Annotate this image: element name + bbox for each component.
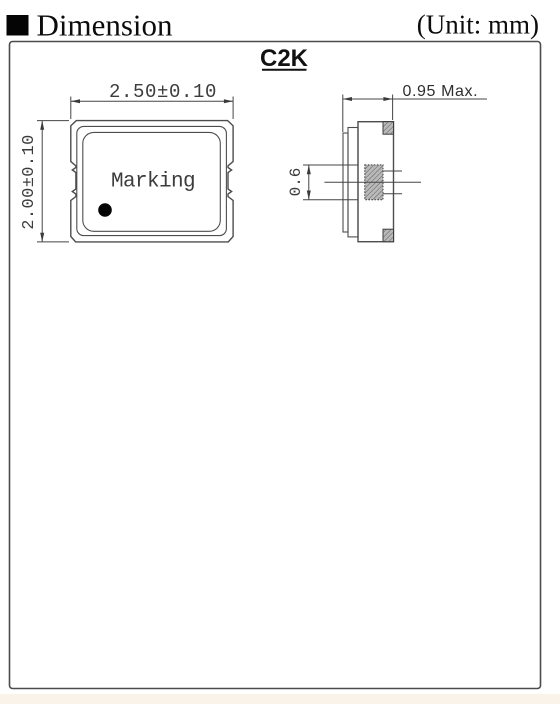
dim 2.00 extension lines (37, 120, 69, 122)
crystal electrode (hatched) (365, 165, 383, 200)
package lid seam (outer rounded) (77, 126, 227, 235)
svg-text:0.95 Max.: 0.95 Max. (403, 83, 479, 100)
svg-text:Marking: Marking (111, 171, 195, 194)
svg-text:Dimension: Dimension (37, 8, 174, 43)
dim 2.50 extension lines (70, 97, 72, 120)
bottom page strip (0, 694, 560, 704)
dim 0.95 line with leader (343, 98, 393, 100)
electrode leader lines (383, 170, 402, 172)
svg-text:2.50±0.10: 2.50±0.10 (109, 81, 217, 103)
side view top-right pad (383, 122, 394, 135)
svg-text:0.6: 0.6 (287, 168, 305, 197)
title bullet square (7, 15, 29, 36)
dim 0.95 extension lines (342, 95, 344, 133)
package top view outline (71, 121, 233, 242)
package lid top (inner rounded) (83, 132, 221, 231)
dim 0.6 extension lines (303, 164, 358, 166)
side view body (358, 122, 394, 242)
svg-text:(Unit: mm): (Unit: mm) (417, 10, 539, 40)
pin 1 index dot (98, 203, 112, 217)
side view lid (348, 128, 358, 237)
dim 2.50 line (71, 100, 233, 102)
svg-text:C2K: C2K (260, 45, 309, 72)
horizontal centerline (324, 181, 421, 183)
svg-text:2.00±0.10: 2.00±0.10 (20, 134, 39, 229)
dim 0.6 line (308, 165, 310, 200)
side view lid outer step (343, 133, 348, 232)
side view bottom-right pad (383, 229, 394, 242)
dim 2.00 line (41, 121, 43, 242)
